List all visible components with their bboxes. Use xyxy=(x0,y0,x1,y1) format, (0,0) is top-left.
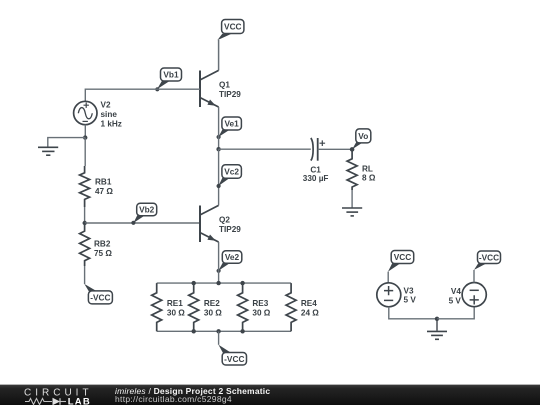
capacitor C1 xyxy=(311,138,325,161)
svg-text:30 Ω: 30 Ω xyxy=(167,308,185,317)
wire C1 to Vo junction xyxy=(318,148,352,150)
svg-text:Q2: Q2 xyxy=(219,216,230,225)
wire Ve1 junction to Q2 collector xyxy=(218,149,220,205)
wire V2 bottom xyxy=(84,125,86,138)
svg-text:Q1: Q1 xyxy=(219,81,230,90)
junction bottom rail -VCC xyxy=(216,329,220,333)
resistor RE2 xyxy=(189,283,199,331)
junction bottom rail RE3 xyxy=(240,329,244,333)
label RE2 30 Ω xyxy=(204,299,222,318)
svg-text:TIP29: TIP29 xyxy=(219,90,241,99)
svg-text:30 Ω: 30 Ω xyxy=(252,308,270,317)
svg-text:RB1: RB1 xyxy=(95,178,112,187)
resistor RL xyxy=(347,149,357,190)
resistor RB1 xyxy=(80,166,90,207)
label C1 330 µF xyxy=(303,166,329,183)
net flag Vo xyxy=(352,129,371,149)
wire junction to Q2 base xyxy=(85,222,200,224)
label RE4 24 Ω xyxy=(301,299,319,318)
junction bottom rail RE2 xyxy=(192,329,196,333)
resistor RE4 xyxy=(286,283,296,331)
net flag Vb2 xyxy=(131,203,156,225)
net flag Ve2 xyxy=(217,251,242,273)
resistor RB2 xyxy=(80,223,90,266)
wire RB1 to junction xyxy=(84,207,86,223)
junction top rail RE3 xyxy=(240,281,244,285)
label RE1 30 Ω xyxy=(167,299,185,318)
footer bar xyxy=(0,384,540,405)
resistor RE3 xyxy=(238,283,248,331)
svg-text:5 V: 5 V xyxy=(449,296,462,305)
net flag Ve1 xyxy=(217,117,242,139)
svg-text:330 µF: 330 µF xyxy=(303,174,329,183)
svg-text:5 V: 5 V xyxy=(404,296,417,305)
wire RB2 to -VCC flag xyxy=(84,266,86,284)
wire V3 bottom to ground node xyxy=(389,307,437,319)
svg-text:Vb2: Vb2 xyxy=(139,204,155,214)
svg-text:RE3: RE3 xyxy=(252,299,268,308)
wire Q1 emitter to Ve1 junction xyxy=(218,107,220,149)
label RB1 47 Ω xyxy=(95,178,113,197)
wire V4 top to -VCC flag xyxy=(473,270,475,283)
wire junction to RB1 xyxy=(84,138,86,166)
svg-text:sine: sine xyxy=(101,110,118,119)
label V4 5 V xyxy=(449,287,462,305)
svg-text:VCC: VCC xyxy=(224,22,242,32)
transistor Q2 xyxy=(200,205,219,242)
junction top rail RE2 xyxy=(192,281,196,285)
svg-text:V3: V3 xyxy=(404,286,414,295)
svg-text:VCC: VCC xyxy=(394,252,412,262)
ground (V2) xyxy=(38,147,58,155)
wire bottom rail xyxy=(157,330,291,332)
svg-text:-VCC: -VCC xyxy=(224,354,244,364)
svg-text:30 Ω: 30 Ω xyxy=(204,308,222,317)
svg-text:-VCC: -VCC xyxy=(90,293,110,303)
svg-text:TIP29: TIP29 xyxy=(219,225,241,234)
label RB2 75 Ω xyxy=(94,240,112,259)
net flag -VCC (left) xyxy=(84,284,112,304)
svg-text:Ve1: Ve1 xyxy=(224,119,239,129)
transistor Q1 xyxy=(200,70,219,107)
resistor RE1 xyxy=(152,283,162,331)
wire VCC to Q1 collector xyxy=(218,40,220,70)
voltage source V2 xyxy=(74,101,97,124)
svg-text:8 Ω: 8 Ω xyxy=(362,174,376,183)
svg-text:Vb1: Vb1 xyxy=(163,69,179,79)
ground (RL) xyxy=(342,208,362,216)
net flag Vc2 xyxy=(217,165,242,188)
svg-text:1 kHz: 1 kHz xyxy=(101,120,122,129)
junction Vo node xyxy=(350,147,355,152)
wire V2 top to Q1 base xyxy=(85,89,200,101)
wire ground node to V4 bottom xyxy=(437,307,474,319)
svg-text:Ve2: Ve2 xyxy=(225,252,240,262)
label V2 sine 1 kHz xyxy=(101,101,122,129)
svg-text:RB2: RB2 xyxy=(94,240,111,249)
svg-text:Vo: Vo xyxy=(358,131,368,141)
voltage source V4 xyxy=(462,283,486,307)
circuitlab logo xyxy=(24,385,114,406)
label RE3 30 Ω xyxy=(252,299,270,318)
junction ground node xyxy=(435,317,439,321)
svg-text:RE4: RE4 xyxy=(301,299,317,308)
net flag -VCC (bottom) xyxy=(219,345,247,365)
svg-text:-VCC: -VCC xyxy=(479,252,499,262)
svg-text:24 Ω: 24 Ω xyxy=(301,308,319,317)
label RL 8 Ω xyxy=(362,165,376,183)
wire bottom rail to -VCC flag xyxy=(218,331,220,345)
svg-text:V4: V4 xyxy=(451,287,461,296)
net flag Vb1 xyxy=(155,68,181,91)
svg-text:75 Ω: 75 Ω xyxy=(94,249,112,258)
label Q1 TIP29 xyxy=(219,81,241,100)
net flag VCC (V3) xyxy=(388,251,414,272)
junction top rail Ve2 xyxy=(216,281,220,285)
svg-text:V2: V2 xyxy=(101,101,111,110)
junction below V2 xyxy=(83,135,87,139)
wire VCC flag to V3 xyxy=(387,272,389,283)
wire RL to ground xyxy=(351,190,353,208)
svg-text:RL: RL xyxy=(362,165,373,174)
voltage source V3 xyxy=(377,283,401,307)
svg-text:RE2: RE2 xyxy=(204,299,220,308)
net flag VCC (top) xyxy=(217,20,244,41)
wire Q2 emitter to top rail xyxy=(218,242,220,283)
net flag -VCC (V4) xyxy=(474,251,501,270)
label Q2 TIP29 xyxy=(219,216,241,235)
svg-text:RE1: RE1 xyxy=(167,299,183,308)
label V3 5 V xyxy=(404,286,417,304)
wire Ve1 junction to C1 xyxy=(219,148,311,150)
ground (V3 V4) xyxy=(427,319,447,340)
junction RB1 RB2 Vb2 xyxy=(83,221,87,225)
svg-text:47 Ω: 47 Ω xyxy=(95,187,113,196)
wire top rail xyxy=(157,282,291,284)
svg-text:Vc2: Vc2 xyxy=(224,167,239,177)
wire junction to ground xyxy=(48,138,85,147)
junction Ve1 node xyxy=(216,147,220,151)
